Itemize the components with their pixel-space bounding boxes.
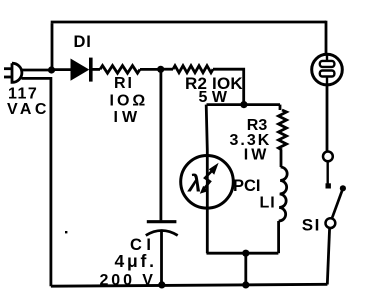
- svg-text:IW: IW: [244, 147, 270, 164]
- svg-text:RI: RI: [114, 75, 134, 92]
- resistor R1 zigzag: [100, 66, 140, 74]
- plug prong upper: [4, 67, 12, 70]
- wire R3 to L1: [280, 150, 283, 167]
- svg-text:λ: λ: [186, 171, 201, 198]
- wire right-top vertical: [325, 21, 328, 55]
- svg-text:4μf.: 4μf.: [115, 251, 157, 271]
- node E junction dot: [242, 281, 249, 288]
- plug prong lower: [4, 76, 12, 79]
- wire box-right stub to R3: [279, 105, 282, 110]
- resistor R2 zigzag: [173, 66, 213, 73]
- resistor R3 zigzag: [279, 110, 287, 150]
- node A junction dot: [48, 66, 55, 73]
- wire top rail: [51, 21, 326, 24]
- svg-text:117: 117: [8, 86, 38, 103]
- svg-text:5 W: 5 W: [199, 89, 228, 106]
- node F junction dot: [158, 281, 165, 288]
- wire plug top to node A: [22, 69, 52, 72]
- wire box-left vertical through PC1: [206, 105, 207, 254]
- wire left-top vertical: [51, 23, 54, 70]
- svg-text:IW: IW: [114, 109, 142, 126]
- diode D1: [71, 58, 93, 82]
- wire plug bottom then left-lower vertical: [22, 78, 51, 286]
- wire diode to R1: [93, 68, 101, 71]
- neon lamp NE1: [312, 54, 343, 85]
- capacitor C1 plates: [146, 222, 178, 236]
- capacitor C1 lower lead: [160, 231, 163, 286]
- wire R2 to right-mid corner and down: [213, 69, 244, 104]
- wire parallel-box bottom: [207, 252, 279, 255]
- svg-text:VAC: VAC: [7, 101, 50, 118]
- node C junction dot: [240, 101, 247, 108]
- svg-text:IOΩ: IOΩ: [110, 92, 149, 109]
- switch S1: [323, 152, 346, 229]
- svg-text:SI: SI: [302, 216, 321, 235]
- wire node A to diode: [52, 68, 71, 71]
- wire bottom rail: [51, 284, 328, 286]
- wire node B to R2: [161, 68, 173, 71]
- svg-text:200 V: 200 V: [100, 272, 156, 289]
- svg-text:DI: DI: [74, 33, 92, 51]
- wire node B down to C1: [159, 69, 162, 220]
- node D junction dot: [242, 250, 249, 257]
- svg-text:PCI: PCI: [233, 177, 261, 195]
- stray speck: [65, 231, 67, 233]
- node B junction dot: [157, 66, 164, 73]
- wire lamp bottom down to switch: [326, 85, 329, 152]
- svg-text:LI: LI: [260, 195, 276, 212]
- inductor L1 coil: [279, 167, 288, 221]
- wire parallel-box top: [207, 103, 281, 106]
- wire L1 bottom down: [277, 221, 280, 253]
- photocell PC1: [181, 156, 234, 209]
- PC1 light arrow zigzag: [203, 171, 212, 190]
- wire below switch to bottom rail: [327, 228, 329, 285]
- plug body: [12, 63, 22, 82]
- wire R1 to node B: [140, 68, 161, 71]
- wire node D down to bottom rail: [244, 253, 247, 285]
